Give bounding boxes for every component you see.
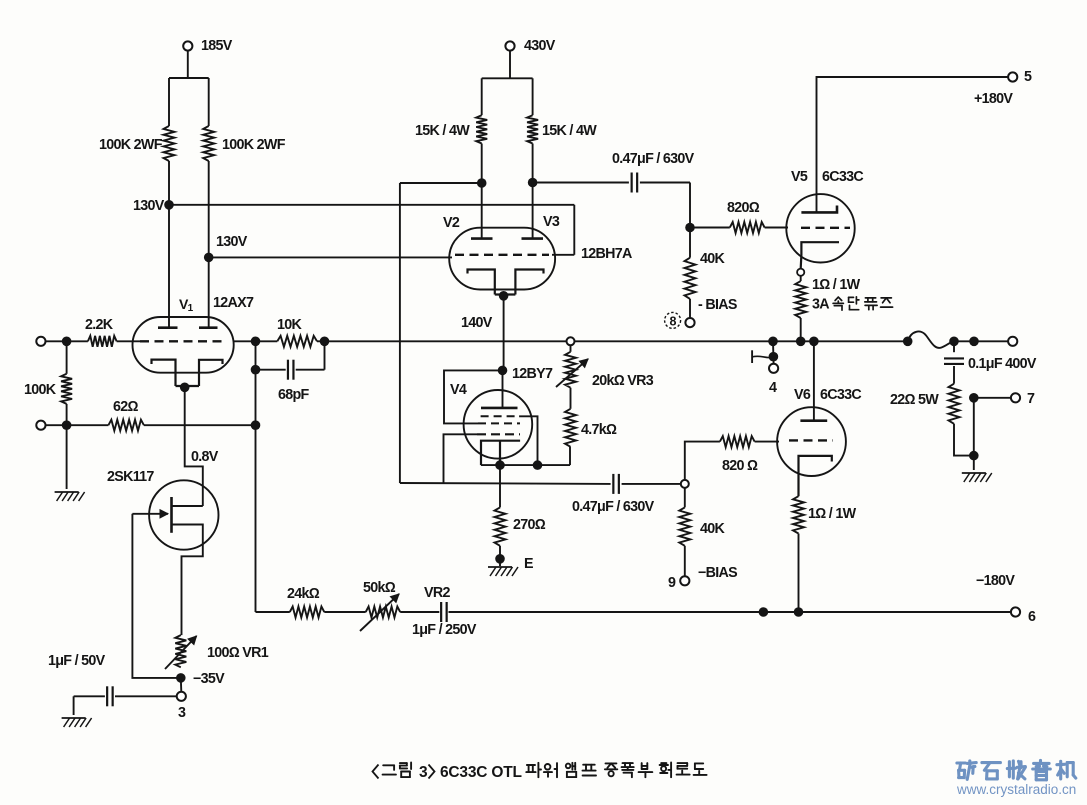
svg-text:100Ω VR1: 100Ω VR1 — [207, 645, 269, 661]
svg-text:3A: 3A — [812, 297, 829, 313]
svg-text:+180V: +180V — [974, 91, 1013, 107]
wire bottom chain left — [256, 611, 290, 613]
capacitor 68pF — [256, 369, 286, 371]
resistor 22 ohm 5W — [949, 384, 960, 424]
svg-text:130V: 130V — [216, 234, 248, 250]
resistor 270 ohm — [499, 465, 501, 507]
capacitor 0.47uF 630V top — [631, 173, 633, 193]
V2 plate bar — [471, 237, 493, 240]
wire 50k to VR2 — [400, 611, 439, 613]
node E — [495, 554, 505, 564]
variable resistor 50k — [366, 607, 401, 618]
svg-text:6: 6 — [1028, 609, 1036, 625]
wire V1 grid to feedback node — [234, 340, 256, 342]
node zobel ground — [969, 451, 979, 461]
svg-text:E: E — [524, 556, 533, 572]
wire V5 plate to +180V — [817, 77, 1009, 212]
node bus V6 plate — [809, 337, 819, 347]
caption bracket left — [373, 765, 379, 779]
svg-text:5: 5 — [1024, 69, 1032, 85]
svg-text:VR2: VR2 — [424, 585, 450, 601]
wire 24k to 50k — [324, 611, 365, 613]
wire 1ohm V6 to -180V rail — [798, 534, 800, 613]
terminal 185V supply — [183, 41, 192, 50]
V1 left plate — [158, 326, 178, 329]
node V3 plate — [528, 178, 538, 188]
power tube V5 6C33C envelope — [786, 194, 854, 262]
wire cathode node bar — [481, 464, 570, 466]
node bus right — [969, 337, 979, 347]
svg-text:140V: 140V — [461, 315, 493, 331]
triode V2 V3 12BH7A envelope — [449, 228, 555, 290]
V1 right cathode — [199, 360, 223, 386]
V6 grid dashed — [789, 439, 833, 441]
resistor 100K input — [66, 341, 68, 374]
wire top bar V2V3 — [482, 77, 533, 79]
svg-text:270Ω: 270Ω — [513, 517, 546, 533]
svg-text:12AX7: 12AX7 — [213, 295, 254, 311]
svg-text:6C33C OTL: 6C33C OTL — [440, 764, 522, 781]
svg-text:1μF / 250V: 1μF / 250V — [412, 622, 477, 638]
wire 10K right — [317, 340, 325, 342]
node V2 plate — [477, 178, 487, 188]
fuse hump on bus — [908, 332, 954, 348]
wire 62ohm to feedback node — [144, 424, 256, 426]
node rail V6 — [794, 607, 804, 617]
svg-text:- BIAS: - BIAS — [698, 297, 737, 313]
node 10K right — [320, 337, 330, 347]
svg-text:1Ω / 1W: 1Ω / 1W — [808, 506, 857, 522]
node V4 cathode — [495, 460, 505, 470]
caption bracket right — [429, 765, 435, 779]
svg-text:−BIAS: −BIAS — [698, 565, 737, 581]
wire 15K right to plate node — [532, 144, 534, 183]
wire 40K to terminal 8 — [689, 299, 691, 318]
svg-text:40K: 40K — [700, 251, 726, 267]
svg-text:1μF / 50V: 1μF / 50V — [48, 653, 106, 669]
svg-text:185V: 185V — [201, 38, 233, 54]
V4 plate — [502, 370, 504, 408]
wire screen loop left — [444, 370, 503, 423]
wire 820 to V6 grid — [755, 441, 779, 443]
wire 1ohm to bus — [800, 318, 802, 341]
wire right 100K to node 130V — [208, 161, 210, 257]
V1 cathode join — [176, 385, 200, 387]
V1 right plate — [199, 326, 218, 329]
wire VR3 to 4.7k — [570, 388, 572, 409]
svg-text:15K / 4W: 15K / 4W — [542, 123, 597, 139]
V1 left cathode — [152, 360, 176, 386]
JFET drain lead — [172, 505, 203, 507]
node V2V3 cathode 140V — [499, 291, 509, 301]
svg-text:www.crystalradio.cn: www.crystalradio.cn — [956, 782, 1076, 797]
terminal 9 — [680, 576, 689, 585]
svg-text:820 Ω: 820 Ω — [722, 458, 758, 474]
svg-text:6C33C: 6C33C — [822, 169, 863, 185]
wire top bar to 100K resistors — [169, 77, 209, 79]
node V4 plate junction — [498, 366, 508, 376]
resistor R 100K 2WF left — [164, 126, 175, 161]
wire 22ohm to ground node — [954, 424, 974, 456]
capacitor 0.1uF 400V — [953, 341, 955, 352]
svg-text:0.8V: 0.8V — [191, 449, 219, 465]
svg-text:9: 9 — [668, 575, 676, 591]
wire -35V to terminal 3 — [180, 678, 183, 692]
variable resistor VR3 20k — [570, 345, 572, 352]
node input upper — [62, 337, 72, 347]
svg-text:V3: V3 — [543, 214, 560, 230]
resistor 820 ohm V6 — [720, 436, 755, 447]
svg-text:0.1μF 400V: 0.1μF 400V — [968, 356, 1037, 372]
wire bias node down to 40K — [684, 488, 686, 508]
power tube V6 6C33C envelope — [777, 407, 846, 476]
terminal 5 — [1008, 72, 1017, 81]
svg-text:2.2K: 2.2K — [85, 317, 114, 333]
node circle VR3 top — [567, 337, 575, 345]
wire 130V right node to V2 grid — [209, 256, 452, 258]
svg-text:1Ω / 1W: 1Ω / 1W — [812, 277, 861, 293]
V4 suppressor dashed — [481, 415, 519, 417]
terminal 6 — [1011, 607, 1020, 616]
JFET channel bar — [170, 497, 173, 533]
node 7 junction — [969, 393, 979, 403]
svg-text:20kΩ VR3: 20kΩ VR3 — [592, 373, 654, 389]
resistor 62 ohm — [108, 420, 143, 431]
V3 plate bar — [522, 237, 544, 240]
svg-text:V5: V5 — [791, 169, 808, 185]
svg-text:V4: V4 — [450, 382, 467, 398]
V2 V3 left cathode — [468, 270, 495, 295]
wire 40K to terminal 9 — [684, 546, 686, 577]
svg-text:0.47μF / 630V: 0.47μF / 630V — [572, 499, 655, 515]
svg-text:50kΩ: 50kΩ — [363, 580, 396, 596]
wire 2.2K to V1 grid — [117, 340, 140, 342]
wire V4 grid lead — [444, 434, 478, 483]
wire to 62ohm — [67, 424, 109, 426]
wire V1 right plate stem — [208, 257, 210, 328]
resistor 2.2K — [88, 336, 117, 347]
svg-text:22Ω 5W: 22Ω 5W — [890, 392, 939, 408]
ground input — [55, 491, 79, 493]
V2 V3 grid dashed — [455, 254, 549, 256]
svg-text:−180V: −180V — [976, 573, 1015, 589]
svg-text:3: 3 — [419, 764, 428, 781]
wire 130V left node to V3 grid — [169, 204, 574, 206]
svg-text:3: 3 — [178, 705, 186, 721]
V4 control grid dashed — [477, 433, 520, 435]
svg-text:24kΩ: 24kΩ — [287, 586, 320, 602]
variable resistor VR1 100 ohm — [175, 635, 186, 667]
resistor 1 ohm fuse V5 — [800, 276, 802, 281]
wire V6 plate stem — [813, 341, 815, 420]
terminal input upper — [36, 337, 45, 346]
capacitor VR2 1uF 250V — [440, 602, 442, 622]
resistor 1 ohm V6 — [793, 496, 804, 533]
output bus wire — [325, 340, 908, 342]
svg-text:8: 8 — [669, 314, 676, 328]
svg-text:7: 7 — [1027, 391, 1035, 407]
node circle bias junction — [681, 480, 689, 488]
node feedback top — [251, 337, 261, 347]
JFET Q1 2SK117 envelope — [149, 480, 218, 549]
node input lower — [62, 420, 72, 430]
node bus zobel — [949, 337, 959, 347]
svg-text:100K 2WF: 100K 2WF — [222, 137, 286, 153]
wire -180V rail — [763, 611, 1011, 613]
resistor 40K lower — [679, 507, 690, 545]
caption korean text — [527, 764, 535, 766]
terminal input lower — [36, 421, 45, 430]
wire V1 cathode 0.8V — [185, 387, 203, 506]
wire 140V cathode down — [503, 296, 505, 371]
resistor R 100K 2WF right — [203, 126, 214, 161]
V6 plate bar — [800, 419, 827, 422]
node bus V5 cathode — [796, 337, 806, 347]
caption korean grim — [383, 764, 394, 766]
node V1 cathode — [180, 383, 190, 393]
svg-text:100K 2WF: 100K 2WF — [99, 137, 163, 153]
JFET source lead — [172, 525, 203, 636]
capacitor 0.47uF 630V bottom — [612, 474, 614, 494]
watermark chinese — [957, 761, 966, 764]
wire left 100K to node 130V — [168, 161, 170, 205]
wire to 2.2K — [67, 340, 88, 342]
node 130V right plate — [204, 253, 214, 263]
wire 820 to V5 grid — [765, 227, 788, 229]
terminal 4 — [769, 364, 778, 373]
resistor 15K 4W right — [527, 115, 538, 143]
svg-text:2SK117: 2SK117 — [107, 469, 154, 485]
wire node7 down — [973, 398, 975, 470]
triode V1 12AX7 envelope — [133, 317, 234, 373]
wire V3 plate to coupling cap — [533, 182, 629, 184]
svg-text:40K: 40K — [700, 521, 726, 537]
JFET gate lead with arrow — [132, 513, 168, 515]
svg-text:10K: 10K — [277, 317, 303, 333]
V2 V3 right cathode — [515, 270, 543, 295]
node 820 40K upper — [685, 223, 695, 233]
svg-text:100K: 100K — [24, 382, 57, 398]
resistor 4.7k — [565, 409, 576, 447]
svg-text:V6: V6 — [794, 387, 811, 403]
V5 plate bar — [801, 206, 837, 213]
node V4 suppressor join — [533, 460, 543, 470]
svg-text:V2: V2 — [443, 215, 460, 231]
svg-text:15K / 4W: 15K / 4W — [415, 123, 470, 139]
terminal 430V supply — [505, 41, 514, 50]
pentode V4 12BY7 envelope — [464, 390, 533, 459]
ground cap 1uF — [62, 717, 86, 719]
node feedback 62ohm — [251, 420, 261, 430]
svg-text:62Ω: 62Ω — [113, 399, 139, 415]
resistor 40K upper — [689, 228, 691, 258]
node rail left — [759, 607, 769, 617]
wire suppressor to cathode — [519, 416, 537, 465]
svg-text:820Ω: 820Ω — [727, 200, 760, 216]
V5 cathode — [801, 242, 839, 268]
svg-text:130V: 130V — [133, 198, 165, 214]
V4 cathode — [481, 441, 520, 465]
node bus terminal4 — [768, 337, 778, 347]
wire bias node up to 820 — [685, 442, 720, 480]
resistor 15K 4W left — [476, 115, 487, 143]
node feedback 68pF — [251, 365, 261, 375]
node 130V left plate — [164, 200, 174, 210]
V5 grid dashed — [801, 227, 850, 229]
svg-text:430V: 430V — [524, 38, 556, 54]
terminal 8 — [685, 318, 694, 327]
capacitor 1uF 50V — [115, 695, 177, 697]
svg-text:12BH7A: 12BH7A — [581, 246, 632, 262]
svg-text:68pF: 68pF — [278, 387, 310, 403]
svg-text:4: 4 — [769, 380, 777, 396]
V4 screen dashed — [478, 422, 520, 424]
resistor 820 ohm V5 — [690, 227, 730, 229]
V1 grid dashed — [140, 340, 227, 342]
V6 cathode — [799, 456, 832, 496]
svg-text:4.7kΩ: 4.7kΩ — [581, 422, 617, 438]
node bus fuse left — [903, 337, 913, 347]
ground E — [499, 559, 501, 566]
svg-text:0.47μF / 630V: 0.47μF / 630V — [612, 151, 695, 167]
wire node7 to terminal — [974, 397, 1011, 399]
circled 8 — [665, 312, 681, 328]
resistor 24k — [290, 607, 325, 618]
svg-text:−35V: −35V — [193, 671, 225, 687]
terminal 4 stub — [772, 341, 774, 356]
wire input lower to ground — [66, 425, 68, 489]
terminal 7 — [1011, 393, 1020, 402]
wire V2 plate to left corner — [400, 182, 482, 184]
ground zobel — [962, 472, 986, 474]
wire 15K left to plate node — [481, 144, 483, 184]
terminal 3 — [177, 692, 186, 701]
svg-text:12BY7: 12BY7 — [512, 366, 553, 382]
V2 V3 cathode join — [495, 293, 516, 295]
junction circle V5 cathode — [797, 269, 804, 276]
resistor 10K — [256, 340, 278, 342]
svg-text:6C33C: 6C33C — [820, 387, 861, 403]
terminal bus right — [1008, 337, 1017, 346]
wire feedback column — [255, 341, 257, 612]
node -35V — [176, 673, 186, 683]
wire drive line — [400, 482, 611, 485]
wire V1 left plate stem — [168, 205, 170, 328]
